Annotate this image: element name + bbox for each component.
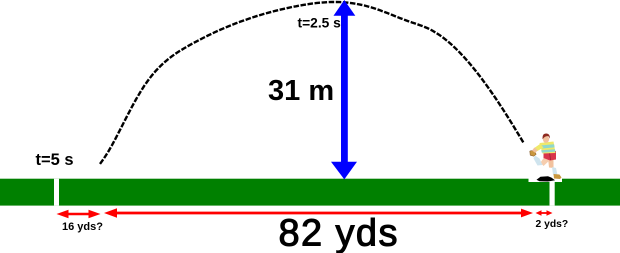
- svg-text:t=2.5 s: t=2.5 s: [298, 15, 342, 30]
- arms: [534, 144, 544, 152]
- kicker shadow: [537, 176, 556, 181]
- shirt: [540, 142, 556, 154]
- raised kicking shoe: [530, 150, 536, 156]
- hair: [543, 133, 550, 139]
- dashed trajectory arc: [100, 2, 524, 164]
- head: [543, 136, 549, 143]
- kicking leg thigh: [541, 156, 551, 166]
- standing leg thigh: [548, 158, 554, 168]
- blue height arrow (double-headed): [331, 0, 357, 179]
- hands: [532, 148, 538, 154]
- svg-text:82 yds: 82 yds: [279, 213, 399, 253]
- standing foot shoe: [554, 174, 562, 179]
- red arrow 82 yds (double-headed): [104, 208, 533, 217]
- kicker image white box notch over field: [529, 179, 551, 182]
- red arrow 16 yds (double-headed): [57, 210, 101, 219]
- right white post marker: [550, 179, 555, 206]
- green field bar: [0, 179, 620, 206]
- shorts: [544, 151, 557, 161]
- left white post marker: [54, 179, 59, 206]
- kicker figure: [530, 133, 562, 179]
- standing leg sock: [552, 167, 558, 175]
- kicker figure white box: [529, 133, 563, 183]
- red arrow 2 yds (double-headed): [536, 210, 553, 216]
- svg-text:t=5 s: t=5 s: [36, 151, 74, 169]
- svg-text:2 yds?: 2 yds?: [536, 219, 569, 230]
- svg-text:16 yds?: 16 yds?: [62, 221, 103, 233]
- svg-text:31 m: 31 m: [268, 75, 334, 107]
- kicking leg shin sock: [534, 156, 543, 166]
